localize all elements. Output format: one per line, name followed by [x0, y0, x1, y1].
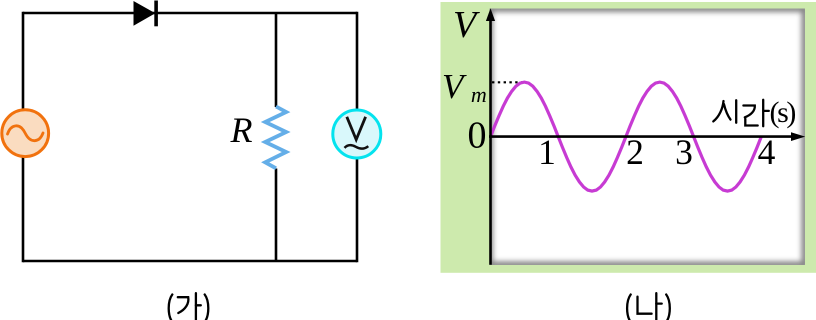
svg-text:2: 2 [626, 132, 644, 172]
svg-text:V: V [453, 4, 480, 46]
svg-text:(s): (s) [770, 96, 796, 129]
svg-text:0: 0 [468, 115, 487, 157]
svg-text:4: 4 [758, 132, 776, 172]
axis vertical V [486, 8, 495, 265]
wire bottom [23, 260, 357, 263]
wire: circuit loop (left panel 가) [23, 12, 357, 263]
dotted guide line Vm [492, 81, 523, 83]
voltmeter V [333, 110, 381, 158]
graph white plot box with inner shadow [490, 9, 806, 266]
wire middle branch upper [275, 13, 278, 107]
diode D1 [134, 1, 158, 27]
axis label 시간(s) [713, 100, 769, 126]
caption (가) [169, 293, 209, 320]
panel (나) green background [441, 2, 816, 273]
wire left [22, 12, 25, 263]
voltage curve [491, 82, 762, 191]
axis horizontal time [489, 132, 805, 141]
svg-text:R: R [230, 110, 253, 150]
wire top [23, 12, 357, 15]
wire right [356, 12, 359, 263]
svg-text:3: 3 [675, 132, 693, 172]
caption (나) [627, 293, 670, 320]
resistor R [265, 107, 286, 169]
AC source [2, 110, 49, 157]
wire middle branch lower [275, 169, 278, 262]
tick labels 1 2 3 4 [538, 132, 776, 172]
svg-text:1: 1 [538, 132, 556, 172]
